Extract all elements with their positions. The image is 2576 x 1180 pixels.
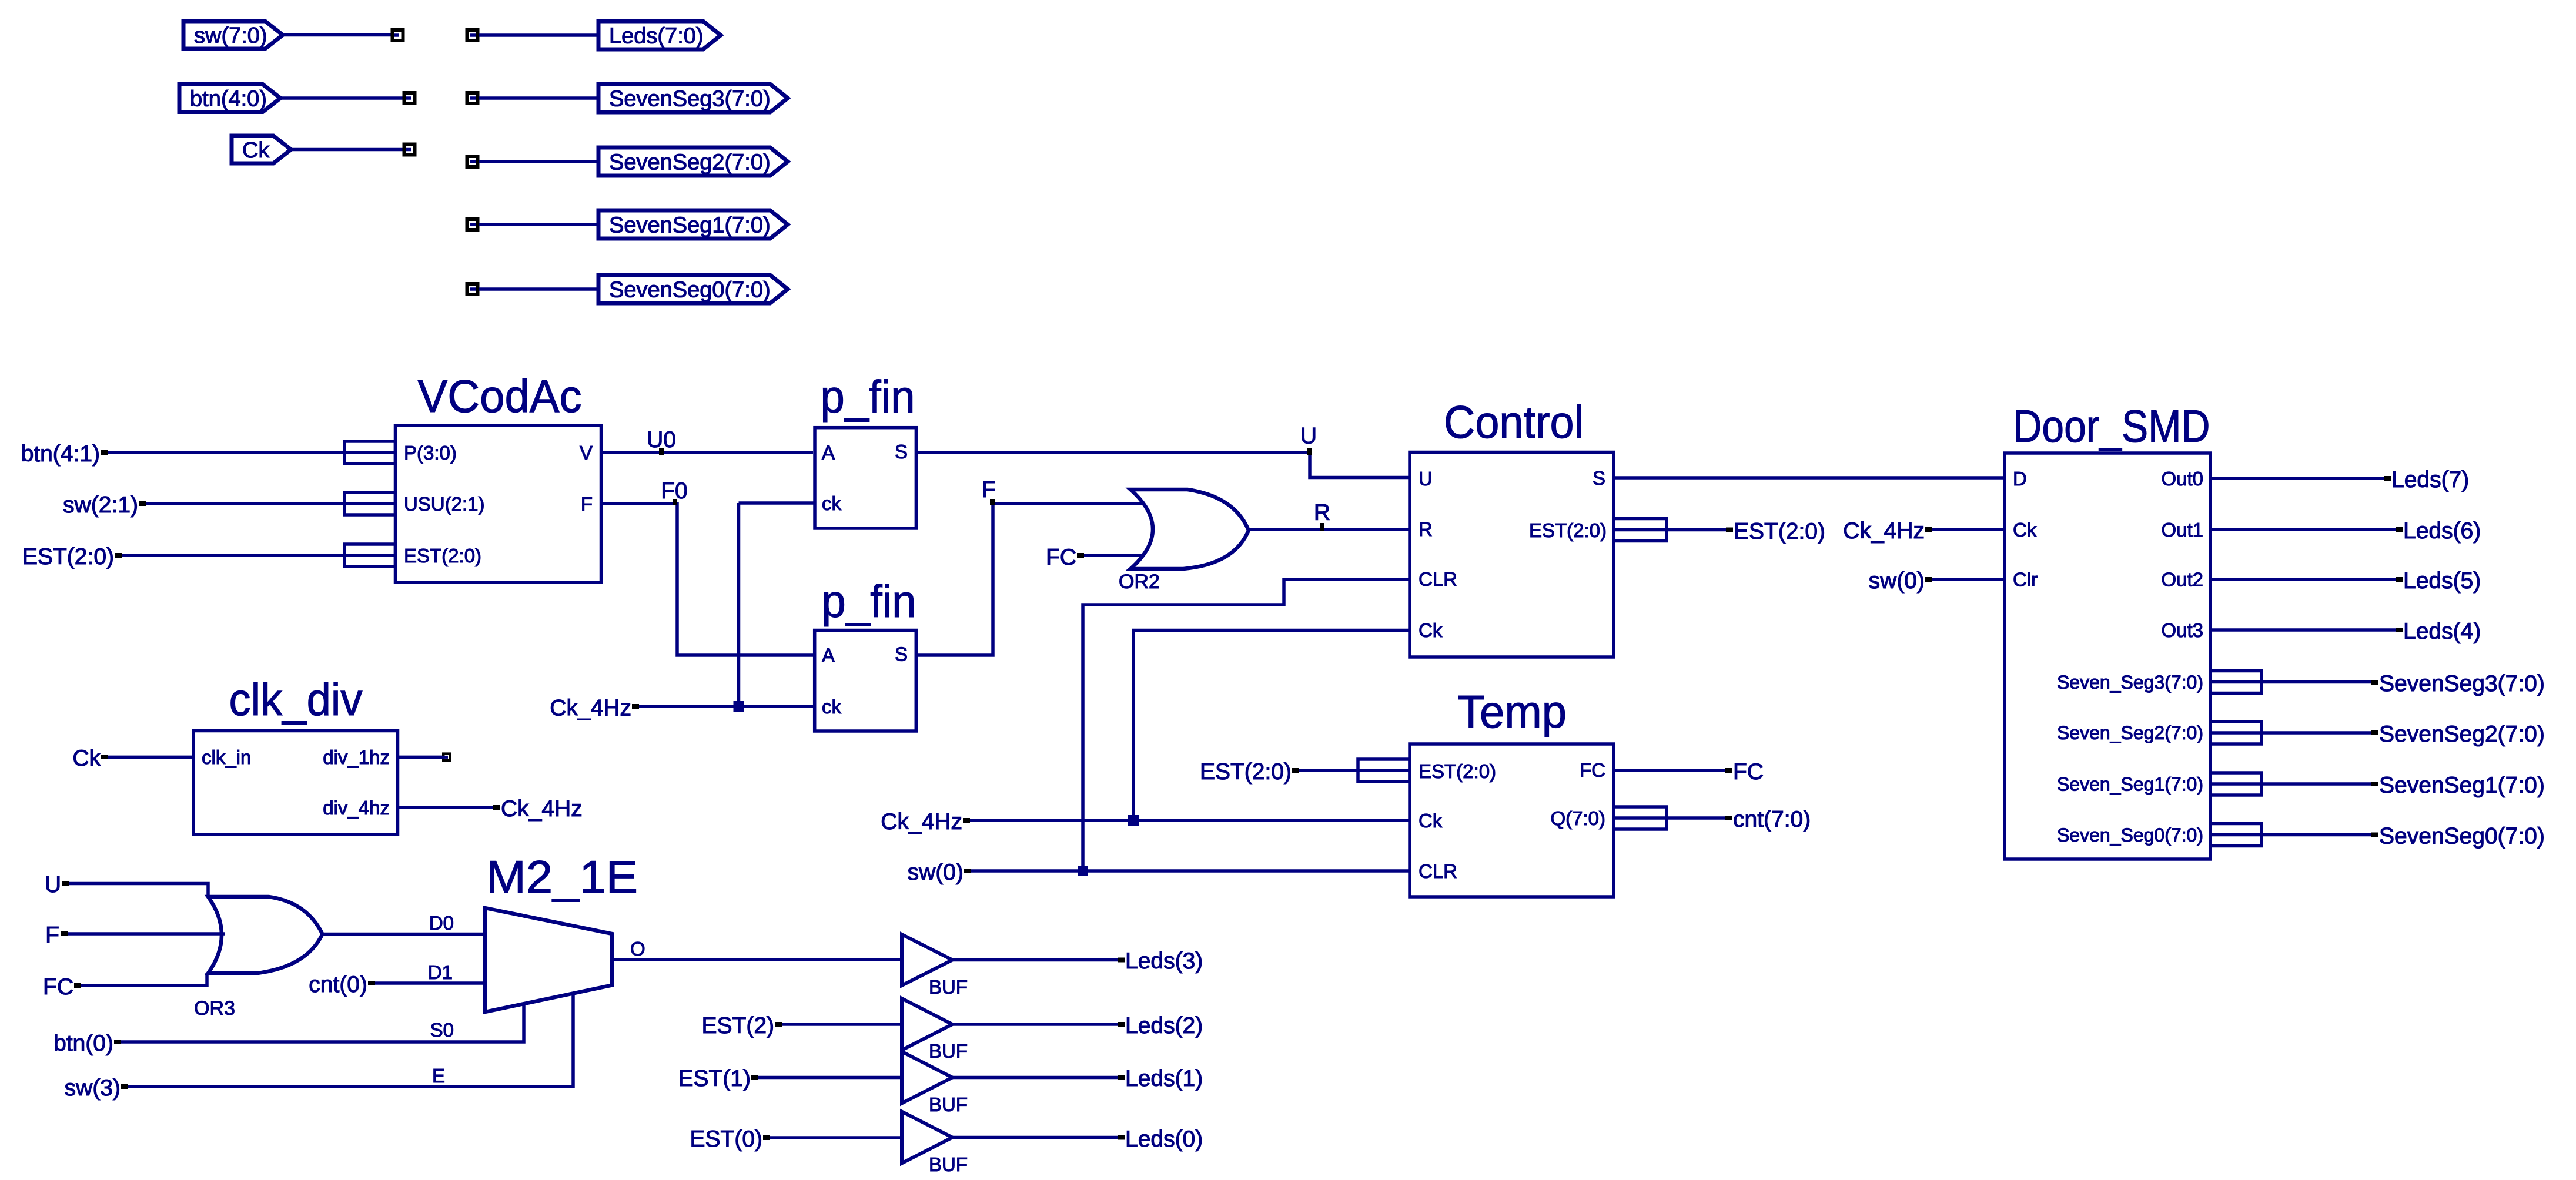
- wire terminal to SevenSeg1(7:0) flag: [479, 223, 598, 226]
- svg-text:SevenSeg1(7:0): SevenSeg1(7:0): [609, 213, 771, 238]
- svg-text:Control: Control: [1444, 396, 1584, 448]
- wire FC to OR3 input: [81, 973, 207, 985]
- svg-text:ck: ck: [822, 492, 842, 514]
- terminal SevenSeg3(7:0): [467, 93, 478, 103]
- attach tick EST(2:0) output: [1726, 528, 1733, 532]
- svg-text:Seven_Seg1(7:0): Seven_Seg1(7:0): [2057, 774, 2203, 795]
- attach tick F at OR2: [990, 499, 995, 505]
- svg-text:V: V: [580, 442, 593, 464]
- wire net F0 VCodAc F to p_fin2 A: [601, 504, 815, 655]
- attach tick Ck_4Hz (Temp/Control): [963, 818, 970, 823]
- wire Ck to terminal: [291, 148, 403, 152]
- attach tick Leds(7): [2384, 476, 2391, 481]
- wire Ck_4Hz to Temp Ck: [970, 819, 1410, 822]
- svg-text:sw(7:0): sw(7:0): [194, 24, 267, 48]
- buffer BUF (Leds0): [902, 1112, 952, 1164]
- wire Out2 to Leds(5): [2210, 578, 2396, 581]
- svg-text:P(3:0): P(3:0): [404, 442, 457, 464]
- svg-text:SevenSeg3(7:0): SevenSeg3(7:0): [609, 87, 771, 112]
- wire btn(4:1) to VCodAc P(3:0): [108, 451, 344, 454]
- attach tick sw(3): [121, 1084, 128, 1089]
- svg-text:Seven_Seg0(7:0): Seven_Seg0(7:0): [2057, 824, 2203, 846]
- svg-text:SevenSeg2(7:0): SevenSeg2(7:0): [2379, 722, 2545, 747]
- terminal SevenSeg1(7:0): [467, 219, 478, 230]
- junction Ck_4Hz net: [1128, 815, 1139, 826]
- output port flag SevenSeg0(7:0): [598, 275, 788, 303]
- svg-text:EST(2:0): EST(2:0): [1200, 759, 1292, 785]
- svg-text:SevenSeg1(7:0): SevenSeg1(7:0): [2379, 773, 2545, 798]
- svg-text:Leds(6): Leds(6): [2403, 518, 2481, 544]
- terminal SevenSeg0(7:0): [467, 284, 478, 294]
- attach tick EST(1): [751, 1075, 758, 1080]
- svg-text:Ck_4Hz: Ck_4Hz: [881, 809, 962, 834]
- output port flag SevenSeg3(7:0): [598, 84, 788, 112]
- svg-text:R: R: [1419, 518, 1433, 540]
- buffer BUF (Leds3): [902, 934, 952, 985]
- wire sw(0) to Temp CLR: [971, 869, 1410, 873]
- attach tick F0: [673, 499, 677, 505]
- wire Temp FC output: [1614, 769, 1725, 772]
- svg-text:cnt(7:0): cnt(7:0): [1733, 807, 1811, 832]
- bus stub VCodAc EST(2:0): [344, 544, 396, 566]
- svg-text:Temp: Temp: [1457, 686, 1567, 737]
- svg-text:SevenSeg2(7:0): SevenSeg2(7:0): [609, 150, 771, 175]
- wire Control EST(2:0) to net label: [1667, 528, 1726, 532]
- or-gate OR2: [1130, 490, 1249, 569]
- svg-text:S: S: [895, 441, 908, 462]
- output port flag Leds(7:0): [598, 21, 721, 49]
- svg-text:A: A: [822, 644, 835, 666]
- svg-text:Out3: Out3: [2161, 619, 2203, 641]
- attach tick SevenSeg0(7:0): [2371, 833, 2378, 837]
- wire div_1hz output: [398, 756, 443, 759]
- wire net R OR2 output to Control R: [1249, 528, 1410, 531]
- svg-text:Out0: Out0: [2161, 468, 2203, 490]
- attach tick EST(0): [763, 1135, 770, 1140]
- wire EST(2:0) to VCodAc EST(2:0): [122, 554, 344, 557]
- terminal SevenSeg2(7:0): [467, 156, 478, 167]
- svg-text:U: U: [1300, 424, 1317, 449]
- attach tick btn(4:1): [101, 450, 108, 455]
- wire U to OR3 input: [69, 884, 208, 898]
- wire sw(0) riser to Control CLR: [1083, 579, 1410, 871]
- wire BUF output to Leds(3): [952, 958, 1118, 962]
- svg-text:btn(4:1): btn(4:1): [21, 441, 100, 467]
- svg-text:U: U: [45, 872, 61, 897]
- bus stub Control EST(2:0) output: [1614, 519, 1667, 541]
- junction Ck_4Hz at p_fin clocks: [734, 701, 744, 712]
- svg-text:sw(0): sw(0): [908, 860, 964, 885]
- bus stub Door_SMD Seven_Seg0(7:0): [2210, 824, 2261, 846]
- svg-text:btn(0): btn(0): [53, 1031, 113, 1056]
- svg-text:M2_1E: M2_1E: [486, 851, 638, 903]
- input port flag Ck: [232, 136, 291, 163]
- svg-text:Clr: Clr: [2013, 569, 2038, 591]
- svg-text:SevenSeg3(7:0): SevenSeg3(7:0): [2379, 671, 2545, 696]
- svg-text:U: U: [1419, 468, 1433, 490]
- bus stub Door_SMD Seven_Seg1(7:0): [2210, 773, 2261, 795]
- wire sw(7:0) to terminal: [283, 33, 392, 37]
- wire sw(0) to Door_SMD Clr: [1932, 578, 2005, 581]
- svg-text:SevenSeg0(7:0): SevenSeg0(7:0): [2379, 824, 2545, 849]
- block clk_div: [193, 731, 398, 835]
- block Door_SMD: [2005, 453, 2210, 859]
- wire Out1 to Leds(6): [2210, 528, 2396, 531]
- attach tick sw(0) at Door_SMD: [1925, 577, 1932, 582]
- wire OR3 output to M2_1E D0: [323, 933, 484, 936]
- svg-text:D: D: [2013, 468, 2027, 490]
- attach tick FC output: [1725, 768, 1732, 773]
- attach tick Leds(2): [1118, 1022, 1125, 1027]
- wire terminal to SevenSeg0(7:0) flag: [479, 287, 598, 291]
- attach tick R: [1320, 523, 1324, 531]
- svg-text:Q(7:0): Q(7:0): [1550, 807, 1605, 829]
- svg-text:BUF: BUF: [929, 1154, 968, 1175]
- input port flag sw(7:0): [183, 21, 283, 49]
- svg-text:FC: FC: [1046, 545, 1076, 570]
- svg-text:ck: ck: [822, 696, 842, 718]
- svg-text:Leds(4): Leds(4): [2403, 619, 2481, 644]
- wire Out0 to Leds(7): [2210, 477, 2384, 480]
- svg-text:sw(2:1): sw(2:1): [63, 492, 138, 518]
- attach tick U at OR3: [62, 881, 69, 886]
- bus stub Door_SMD Seven_Seg3(7:0): [2210, 671, 2261, 693]
- svg-text:cnt(0): cnt(0): [309, 972, 367, 997]
- wire F to OR3 input: [68, 932, 225, 936]
- block VCodAc U_VCodAc: [396, 425, 601, 582]
- wire FC to OR2 input: [1084, 554, 1143, 557]
- wire Seven_Seg0(7:0): [2261, 833, 2371, 837]
- svg-text:Ck_4Hz: Ck_4Hz: [1843, 518, 1925, 544]
- svg-text:Ck_4Hz: Ck_4Hz: [550, 696, 631, 721]
- wire Ck to clk_div clk_in: [108, 756, 193, 759]
- block p_fin lower: [815, 631, 916, 732]
- wire net S Control S to Door_SMD D: [1614, 476, 2005, 480]
- svg-text:E: E: [432, 1065, 445, 1087]
- attach tick EST(2:0) input: [115, 553, 122, 558]
- svg-text:Ck: Ck: [242, 138, 270, 163]
- wire EST(2) to BUF: [782, 1023, 902, 1026]
- attach tick EST(2:0) to Temp: [1292, 768, 1299, 773]
- or-gate OR3: [208, 897, 323, 973]
- attach tick sw(0): [964, 869, 971, 873]
- attach tick Ck at clk_div: [101, 755, 108, 759]
- svg-text:FC: FC: [43, 974, 73, 1000]
- svg-text:USU(2:1): USU(2:1): [404, 493, 485, 515]
- wire net U0 VCodAc V to p_fin1 A: [601, 451, 814, 454]
- svg-text:EST(2:0): EST(2:0): [22, 544, 114, 569]
- wire M2_1E O to BUF: [612, 958, 902, 961]
- svg-text:Seven_Seg2(7:0): Seven_Seg2(7:0): [2057, 722, 2203, 743]
- svg-text:D1: D1: [428, 961, 453, 983]
- wire sw(2:1) to VCodAc USU(2:1): [146, 502, 344, 505]
- svg-text:Leds(2): Leds(2): [1125, 1013, 1203, 1038]
- terminal Leds(7:0): [467, 30, 478, 41]
- svg-text:sw(0): sw(0): [1869, 568, 1925, 594]
- wire terminal to SevenSeg3(7:0) flag: [479, 96, 598, 100]
- attach tick FC at OR2 input: [1077, 553, 1084, 558]
- wire Seven_Seg1(7:0): [2261, 782, 2371, 786]
- attach tick Leds(5): [2396, 577, 2403, 582]
- mux M2_1E body: [485, 908, 612, 1012]
- svg-text:Door_SMD: Door_SMD: [2013, 400, 2210, 452]
- svg-text:div_1hz: div_1hz: [323, 746, 390, 768]
- wire Out3 to Leds(4): [2210, 628, 2396, 632]
- buffer BUF (Leds2): [902, 998, 952, 1050]
- attach tick FC at OR3: [74, 983, 81, 988]
- input port flag btn(4:0): [179, 85, 280, 112]
- bus stub VCodAc USU(2:1): [344, 492, 396, 515]
- attach tick Leds(6): [2396, 527, 2403, 532]
- bus stub Temp Q(7:0) output: [1614, 807, 1667, 829]
- svg-text:F: F: [45, 923, 59, 948]
- wire btn(4:0) to terminal: [280, 96, 404, 100]
- wire cnt(0) to M2_1E D1: [375, 981, 485, 985]
- svg-text:BUF: BUF: [929, 1040, 968, 1062]
- svg-text:EST(0): EST(0): [690, 1127, 762, 1152]
- attach tick cnt(0): [368, 981, 375, 985]
- wire Seven_Seg3(7:0): [2261, 680, 2371, 684]
- svg-text:EST(2:0): EST(2:0): [1419, 760, 1496, 782]
- svg-text:Ck: Ck: [72, 746, 101, 771]
- attach tick U0: [659, 448, 664, 455]
- attach tick sw(2:1): [139, 501, 146, 506]
- svg-text:Ck: Ck: [2013, 519, 2037, 541]
- svg-text:Ck_4Hz: Ck_4Hz: [501, 796, 583, 822]
- junction sw(0) net: [1078, 866, 1088, 876]
- terminal div_1hz (unconnected): [442, 754, 450, 761]
- terminal Ck: [404, 145, 415, 155]
- bus stub Temp EST(2:0) input: [1358, 759, 1410, 782]
- wire BUF output to Leds(2): [952, 1023, 1118, 1026]
- attach tick SevenSeg3(7:0): [2371, 680, 2378, 685]
- svg-text:p_fin: p_fin: [822, 575, 916, 627]
- svg-text:D0: D0: [429, 912, 454, 934]
- svg-text:Leds(3): Leds(3): [1125, 948, 1203, 974]
- svg-text:EST(2:0): EST(2:0): [1734, 519, 1825, 544]
- wire Ck_4Hz to p_fin1 ck: [739, 501, 815, 505]
- attach tick Leds(1): [1118, 1075, 1125, 1080]
- wire Temp Q(7:0) output: [1667, 816, 1725, 820]
- svg-text:Out1: Out1: [2161, 519, 2203, 541]
- wire vertical Ck_4Hz riser to p_fin1 ck: [737, 503, 741, 706]
- svg-text:EST(2:0): EST(2:0): [1529, 519, 1607, 541]
- bus stub VCodAc P(3:0): [344, 441, 396, 464]
- svg-text:Out2: Out2: [2161, 569, 2203, 591]
- wire Ck_4Hz riser to Control Ck: [1133, 631, 1410, 821]
- wire EST(1) to BUF: [758, 1076, 902, 1080]
- svg-text:F: F: [581, 493, 593, 515]
- svg-text:Leds(1): Leds(1): [1125, 1066, 1203, 1091]
- wire Ck_4Hz to p_fin2 ck: [639, 705, 815, 708]
- svg-text:p_fin: p_fin: [821, 371, 915, 423]
- svg-text:F: F: [982, 477, 996, 502]
- svg-text:Leds(7): Leds(7): [2391, 467, 2469, 492]
- output port flag SevenSeg2(7:0): [598, 147, 788, 176]
- attach tick U: [1307, 448, 1312, 455]
- bus stub Door_SMD Seven_Seg2(7:0): [2210, 722, 2261, 744]
- attach tick Leds(4): [2396, 628, 2403, 632]
- svg-text:btn(4:0): btn(4:0): [190, 87, 267, 112]
- svg-text:VCodAc: VCodAc: [418, 370, 582, 422]
- attach tick Leds(0): [1118, 1135, 1125, 1140]
- wire Seven_Seg2(7:0): [2261, 731, 2371, 735]
- wire terminal to SevenSeg2(7:0) flag: [479, 160, 598, 163]
- svg-text:EST(1): EST(1): [678, 1066, 751, 1091]
- wire Ck_4Hz to Door_SMD Ck: [1932, 528, 2005, 531]
- attach tick Ck_4Hz at Door_SMD: [1925, 527, 1932, 532]
- svg-text:Leds(5): Leds(5): [2403, 568, 2481, 594]
- attach tick btn(0): [114, 1040, 121, 1044]
- svg-text:FC: FC: [1580, 759, 1605, 781]
- attach tick SevenSeg1(7:0): [2371, 782, 2378, 786]
- wire BUF output to Leds(0): [952, 1136, 1118, 1139]
- wire sw(3) to M2_1E E: [128, 992, 573, 1087]
- buffer BUF (Leds1): [902, 1052, 952, 1104]
- svg-text:Ck: Ck: [1419, 810, 1443, 832]
- block Temp: [1410, 744, 1614, 897]
- wire div_4hz output Ck_4Hz: [398, 806, 494, 809]
- terminal btn(4:0): [404, 93, 415, 103]
- svg-text:CLR: CLR: [1419, 860, 1457, 882]
- svg-text:FC: FC: [1733, 759, 1764, 785]
- svg-text:clk_in: clk_in: [202, 746, 251, 768]
- block Control: [1410, 452, 1614, 658]
- block p_fin upper: [815, 428, 916, 528]
- attach tick SevenSeg2(7:0): [2371, 730, 2378, 735]
- svg-text:OR2: OR2: [1119, 571, 1160, 593]
- svg-text:OR3: OR3: [194, 997, 235, 1020]
- output port flag SevenSeg1(7:0): [598, 210, 788, 239]
- svg-text:div_4hz: div_4hz: [323, 797, 390, 819]
- attach tick Leds(3): [1118, 958, 1125, 963]
- svg-text:Leds(0): Leds(0): [1125, 1127, 1203, 1152]
- svg-text:R: R: [1314, 500, 1330, 525]
- wire net F p_fin2 S to OR2 input: [916, 504, 1143, 655]
- svg-text:SevenSeg0(7:0): SevenSeg0(7:0): [609, 278, 771, 303]
- attach tick Ck_4Hz at clk_div: [493, 805, 500, 810]
- svg-text:S: S: [895, 643, 908, 665]
- svg-text:Ck: Ck: [1419, 619, 1443, 641]
- svg-text:EST(2:0): EST(2:0): [404, 545, 481, 566]
- svg-text:S0: S0: [430, 1019, 454, 1041]
- svg-text:A: A: [822, 442, 835, 464]
- svg-text:S: S: [1593, 467, 1605, 489]
- wire EST(0) to BUF: [770, 1136, 902, 1139]
- svg-text:CLR: CLR: [1419, 568, 1457, 590]
- svg-text:Leds(7:0): Leds(7:0): [609, 24, 704, 49]
- attach tick Ck_4Hz (p_fin clocks): [632, 704, 639, 709]
- attach tick F at OR3: [61, 931, 68, 936]
- wire terminal to Leds(7:0) flag: [479, 33, 598, 37]
- svg-text:EST(2): EST(2): [701, 1013, 774, 1038]
- svg-text:BUF: BUF: [929, 1094, 968, 1115]
- svg-text:BUF: BUF: [929, 976, 968, 998]
- svg-text:clk_div: clk_div: [229, 673, 363, 725]
- wire BUF output to Leds(1): [952, 1076, 1118, 1080]
- terminal sw(7:0): [393, 30, 403, 41]
- wire btn(0) to M2_1E S0: [121, 1003, 524, 1042]
- svg-text:O: O: [630, 938, 645, 960]
- svg-text:sw(3): sw(3): [65, 1075, 121, 1101]
- attach tick cnt(7:0): [1725, 816, 1732, 820]
- wire EST(2:0) to Temp EST input: [1299, 769, 1358, 772]
- wire net U p_fin1 S to Control U: [916, 452, 1410, 478]
- attach tick EST(2): [775, 1022, 782, 1027]
- svg-text:Seven_Seg3(7:0): Seven_Seg3(7:0): [2057, 672, 2203, 693]
